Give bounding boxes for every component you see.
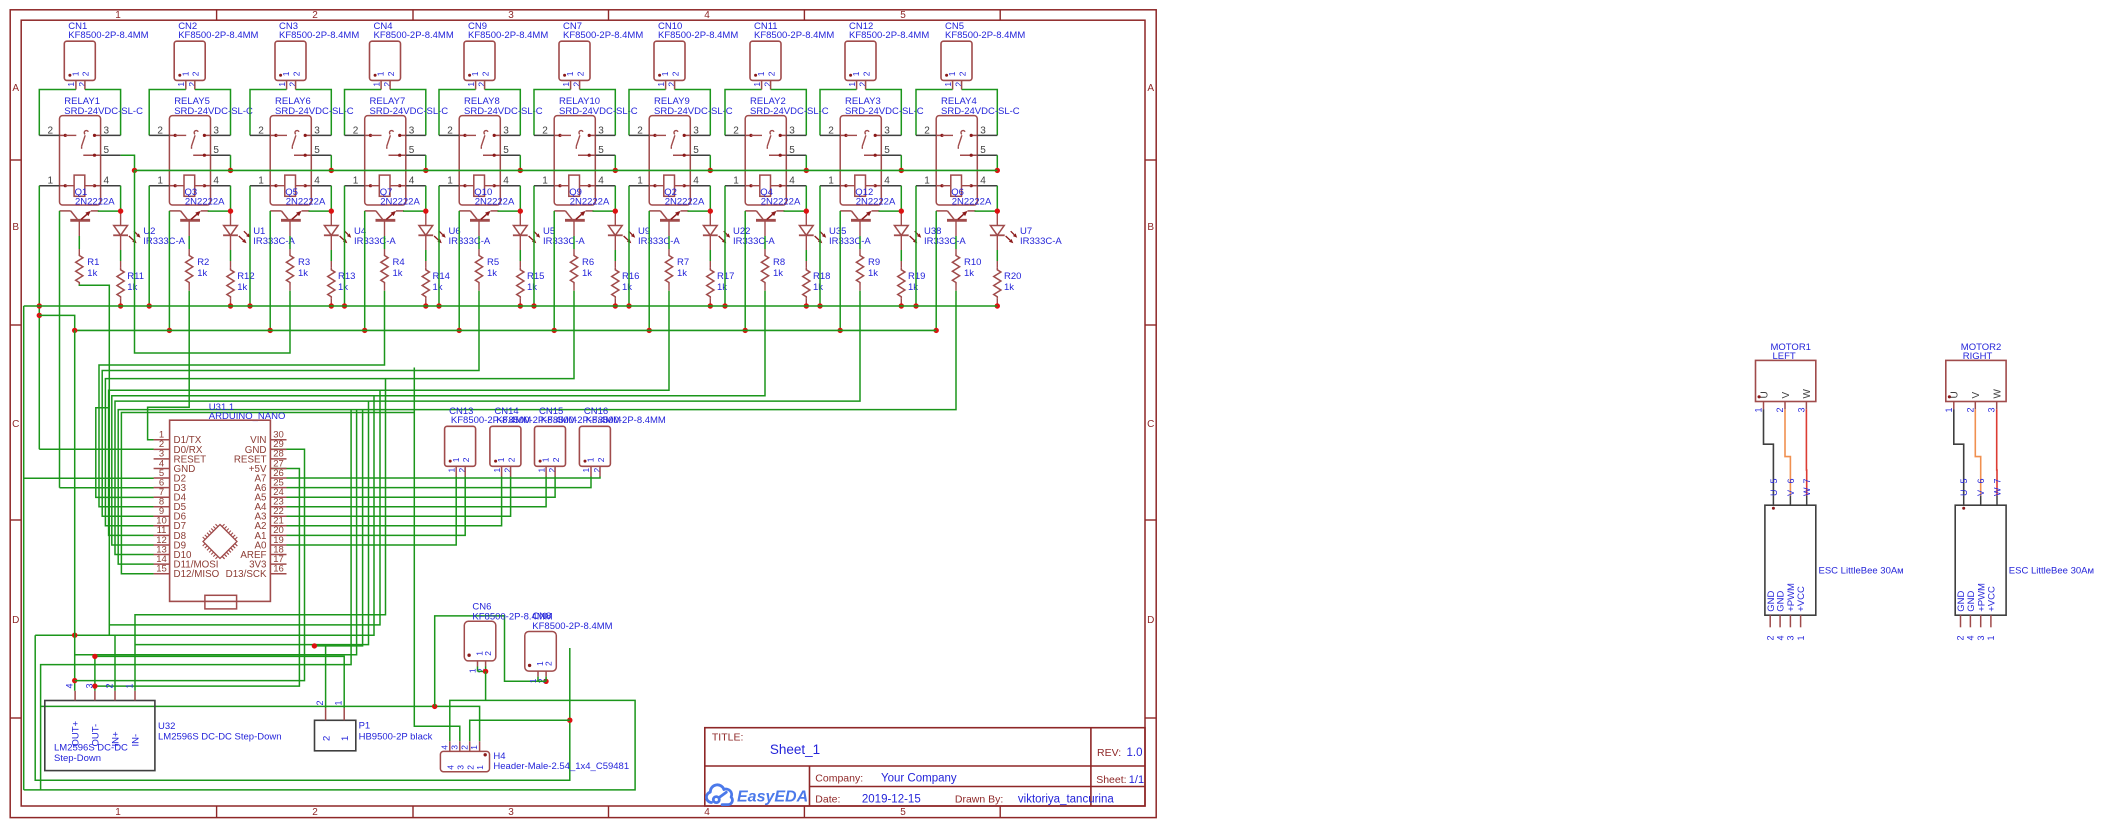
svg-text:2: 2	[353, 125, 359, 136]
resistor R6 1k	[570, 254, 577, 285]
svg-text:LM2596S DC-DC Step-Down: LM2596S DC-DC Step-Down	[158, 732, 282, 743]
wire Q6 base lead	[955, 220, 957, 236]
wire GND29 to OUT+ net	[75, 449, 305, 680]
svg-text:W: W	[1992, 487, 2002, 496]
svg-text:4: 4	[1966, 635, 1976, 640]
wire CN5 pin1 to RELAY4 pin2	[916, 90, 953, 136]
svg-text:2: 2	[924, 125, 930, 136]
svg-text:U32: U32	[158, 721, 175, 732]
svg-text:IR333C-A: IR333C-A	[543, 236, 585, 247]
svg-text:1k: 1k	[1004, 282, 1014, 293]
resistor R4 1k	[381, 254, 388, 285]
svg-text:5: 5	[980, 145, 986, 156]
svg-text:1: 1	[258, 175, 264, 186]
wire A pin 21 to CN drop	[287, 477, 502, 526]
wire R13 to bus1	[330, 299, 332, 306]
svg-text:4: 4	[789, 175, 795, 186]
USB tab	[205, 595, 237, 609]
svg-text:15: 15	[156, 564, 167, 575]
svg-text:2: 2	[461, 457, 471, 462]
svg-text:1k: 1k	[338, 282, 348, 293]
wire channel net to D pin 12	[112, 291, 765, 545]
svg-text:5: 5	[503, 145, 509, 156]
svg-text:2N2222A: 2N2222A	[761, 197, 801, 208]
wire Q9 base lead	[573, 220, 575, 236]
wire A pin 19 to CN drop	[287, 477, 457, 546]
svg-text:3: 3	[598, 125, 604, 136]
wire CN1 pin1 to RELAY1 pin2	[39, 90, 76, 136]
svg-text:4: 4	[65, 683, 75, 688]
svg-text:KF8500-2P-8.4MM: KF8500-2P-8.4MM	[945, 30, 1025, 41]
resistor R18 1k	[803, 268, 810, 299]
svg-text:1: 1	[581, 468, 591, 473]
svg-text:2N2222A: 2N2222A	[75, 197, 115, 208]
svg-text:3: 3	[213, 125, 219, 136]
svg-text:2N2222A: 2N2222A	[380, 197, 420, 208]
svg-text:2019-12-15: 2019-12-15	[862, 794, 921, 806]
svg-text:IR333C-A: IR333C-A	[449, 236, 491, 247]
wire Q2 base lead	[668, 220, 670, 236]
svg-text:1: 1	[851, 71, 861, 76]
svg-text:1: 1	[446, 468, 456, 473]
wire CN4 pin2 to RELAY7 pin3	[390, 90, 426, 136]
svg-text:1: 1	[371, 82, 381, 87]
svg-text:Header-Male-2.54_1x4_C59481: Header-Male-2.54_1x4_C59481	[493, 761, 629, 772]
svg-text:3: 3	[455, 765, 465, 770]
svg-text:Sheet_1: Sheet_1	[770, 742, 820, 757]
wire CN2 pin2 to RELAY5 pin3	[195, 90, 231, 136]
wire A pin 23 to CN drop	[287, 477, 547, 507]
svg-text:A: A	[12, 83, 19, 94]
wire Q1 collector rail	[59, 211, 61, 488]
title block	[705, 728, 1145, 806]
svg-text:TITLE:: TITLE:	[712, 732, 744, 744]
svg-text:KF8500-2P-8.4MM: KF8500-2P-8.4MM	[754, 30, 834, 41]
svg-text:D: D	[1147, 615, 1154, 626]
resistor R8 1k	[761, 254, 768, 285]
wire bus2 (transistor bus)	[75, 329, 937, 331]
svg-text:1: 1	[176, 82, 186, 87]
wire Q3 base lead	[188, 220, 190, 236]
svg-text:R9: R9	[868, 257, 880, 268]
svg-text:3: 3	[508, 10, 514, 21]
svg-text:R15: R15	[527, 271, 544, 282]
wire bus1 (LED/R return bus)	[24, 305, 998, 307]
svg-text:4: 4	[980, 175, 986, 186]
wire RELAY5 pin4 to Q3	[230, 186, 232, 211]
svg-text:3: 3	[84, 683, 94, 688]
connector P1 HB9500-2P	[315, 720, 356, 751]
LED U1 IR333C-A	[230, 211, 232, 225]
svg-text:1: 1	[66, 82, 76, 87]
svg-text:2: 2	[312, 807, 318, 818]
wire Q5 base lead	[289, 220, 291, 236]
svg-text:1: 1	[542, 175, 548, 186]
wire R11 to bus1	[120, 299, 122, 306]
svg-text:3: 3	[789, 125, 795, 136]
wire Q6 emitter to LED node	[975, 210, 998, 212]
svg-text:IR333C-A: IR333C-A	[1020, 236, 1062, 247]
resistor R13 1k	[328, 268, 335, 299]
svg-text:R1: R1	[87, 257, 99, 268]
svg-text:1: 1	[180, 71, 190, 76]
wire channel net to D pin 8	[99, 291, 385, 507]
svg-text:2: 2	[575, 71, 585, 76]
svg-text:1: 1	[466, 82, 476, 87]
svg-text:1: 1	[586, 457, 596, 462]
wire Q12 collector rail	[839, 211, 841, 331]
svg-text:D13/SCK: D13/SCK	[226, 569, 267, 580]
svg-text:1: 1	[48, 175, 54, 186]
svg-text:KF8500-2P-8.4MM: KF8500-2P-8.4MM	[849, 30, 929, 41]
svg-text:1: 1	[565, 71, 575, 76]
svg-text:IN-: IN-	[131, 734, 142, 747]
sheet frame	[10, 10, 1156, 818]
wire RELAY10 pin5 to COM bus	[614, 155, 616, 170]
svg-text:1: 1	[470, 71, 480, 76]
svg-text:EasyEDA: EasyEDA	[737, 789, 808, 806]
svg-text:IR333C-A: IR333C-A	[829, 236, 871, 247]
wire RELAY6 pin5 to COM bus	[330, 155, 332, 170]
wire A pin 20 to CN drop	[287, 477, 466, 536]
wire RELAY3 pin1 rail	[819, 186, 821, 306]
svg-text:5: 5	[598, 145, 604, 156]
wire to H4 pin 3	[414, 368, 460, 742]
wire Q4 collector rail	[744, 211, 746, 331]
svg-text:KF8500-2P-8.4MM: KF8500-2P-8.4MM	[374, 30, 454, 41]
svg-text:1: 1	[1754, 407, 1764, 412]
svg-text:Date:: Date:	[815, 794, 840, 806]
wire Q2 collector rail	[648, 211, 650, 331]
svg-text:2: 2	[1965, 407, 1975, 412]
svg-text:16: 16	[273, 564, 284, 575]
wire bundle drop to IN-	[135, 379, 386, 691]
svg-text:1: 1	[1796, 635, 1806, 640]
ESC LittleBee 30A (LEFT)	[1772, 496, 1774, 506]
wire R18 to bus1	[805, 299, 807, 306]
wire RELAY5 pin5 to COM bus	[230, 155, 232, 170]
LED U4 IR333C-A	[330, 211, 332, 225]
wire CN12 pin1 to RELAY3 pin2	[820, 90, 857, 136]
wire RELAY2 pin4 to Q4	[805, 186, 807, 211]
wire CN9 pin2 to RELAY8 pin3	[485, 90, 521, 136]
svg-text:2: 2	[291, 71, 301, 76]
svg-text:IR333C-A: IR333C-A	[733, 236, 775, 247]
svg-text:3: 3	[409, 125, 415, 136]
svg-text:4: 4	[409, 175, 415, 186]
wire D0 row	[39, 448, 154, 450]
svg-text:4: 4	[213, 175, 219, 186]
svg-text:3: 3	[104, 125, 110, 136]
svg-text:2N2222A: 2N2222A	[665, 197, 705, 208]
svg-text:2: 2	[637, 125, 643, 136]
svg-text:R6: R6	[582, 257, 594, 268]
svg-text:2: 2	[315, 700, 325, 705]
wire D2 row	[24, 477, 154, 479]
svg-text:1k: 1k	[237, 282, 247, 293]
svg-text:1: 1	[333, 700, 343, 705]
svg-text:1k: 1k	[298, 268, 308, 279]
svg-text:KF8500-2P-8.4MM: KF8500-2P-8.4MM	[586, 415, 666, 426]
wire COM bus (relay pin5 bus)	[135, 169, 998, 171]
svg-text:1: 1	[469, 745, 479, 750]
wire MOTOR2 V phase	[1975, 409, 1980, 495]
svg-text:2: 2	[191, 71, 201, 76]
wire R14 to bus1	[425, 299, 427, 306]
wire RELAY4 pin4 to Q6	[996, 186, 998, 211]
wire CN10 pin2 to RELAY9 pin3	[675, 90, 711, 136]
svg-text:1k: 1k	[87, 268, 97, 279]
wire channel net to D pin 10	[105, 291, 574, 526]
wire R19 to bus1	[900, 299, 902, 306]
regulator module U32 LM2596S	[45, 701, 155, 771]
wire CN10 pin1 to RELAY9 pin2	[629, 90, 666, 136]
svg-text:2: 2	[1775, 407, 1785, 412]
svg-text:2: 2	[157, 125, 163, 136]
wire R1 net to D pin 7	[96, 408, 154, 498]
wire bundle drop 6	[75, 410, 357, 655]
wire Q5 emitter to LED node	[309, 210, 332, 212]
svg-text:KF8500-2P-8.4MM: KF8500-2P-8.4MM	[178, 30, 258, 41]
wire CN5 pin2 to RELAY4 pin3	[962, 90, 998, 136]
wire Q6 collector rail	[935, 211, 937, 331]
svg-text:V: V	[1786, 490, 1796, 496]
wire Q2 emitter to LED node	[688, 210, 711, 212]
svg-text:2N2222A: 2N2222A	[475, 197, 515, 208]
svg-text:2: 2	[104, 683, 114, 688]
svg-text:Step-Down: Step-Down	[54, 753, 101, 764]
wire channel net to D pin 13	[115, 291, 860, 555]
wire RELAY6 pin1 rail	[249, 186, 251, 306]
svg-text:3: 3	[449, 745, 459, 750]
svg-text:1k: 1k	[393, 268, 403, 279]
svg-text:4: 4	[1775, 635, 1785, 640]
wire RELAY9 pin5 to COM bus	[709, 155, 711, 170]
wire CN9 pin1 to RELAY8 pin2	[439, 90, 476, 136]
svg-text:R20: R20	[1004, 271, 1021, 282]
wire Q9 emitter to LED node	[593, 210, 616, 212]
wire RELAY6 pin4 to Q5	[330, 186, 332, 211]
svg-text:R12: R12	[237, 271, 254, 282]
wire channel net to D pin 11	[109, 291, 669, 536]
EasyEDA logo	[706, 785, 732, 805]
wire CN3 pin2 to RELAY6 pin3	[296, 90, 332, 136]
wire CN7 pin1 to RELAY10 pin2	[534, 90, 571, 136]
svg-text:1: 1	[281, 71, 291, 76]
svg-text:2: 2	[1765, 635, 1775, 640]
resistor R14 1k	[422, 268, 429, 299]
svg-text:2: 2	[386, 71, 396, 76]
wire D3 row	[60, 487, 154, 489]
wire RELAY9 pin1 rail	[628, 186, 630, 306]
wire MOTOR1 V phase	[1785, 409, 1790, 495]
wire A pin 25 to CN drop	[287, 477, 592, 488]
svg-text:5: 5	[213, 145, 219, 156]
LED U2 IR333C-A	[120, 211, 122, 225]
svg-text:1k: 1k	[527, 282, 537, 293]
svg-text:1: 1	[752, 82, 762, 87]
wire Q12 emitter to LED node	[879, 210, 902, 212]
resistor R20 1k	[994, 268, 1001, 299]
svg-text:4: 4	[439, 745, 449, 750]
resistor R2 1k	[186, 254, 193, 285]
svg-text:1k: 1k	[127, 282, 137, 293]
svg-text:U: U	[1959, 490, 1969, 497]
wire A pin 26 to CN drop	[287, 477, 601, 479]
svg-text:2: 2	[447, 125, 453, 136]
svg-text:4: 4	[314, 175, 320, 186]
svg-text:1: 1	[536, 468, 546, 473]
svg-text:HB9500-2P black: HB9500-2P black	[359, 732, 433, 743]
svg-text:1k: 1k	[197, 268, 207, 279]
svg-text:1k: 1k	[433, 282, 443, 293]
svg-text:6: 6	[1786, 478, 1796, 483]
svg-text:5: 5	[104, 145, 110, 156]
svg-text:2N2222A: 2N2222A	[856, 197, 896, 208]
wire channel net to D pin 9	[102, 291, 479, 517]
svg-text:4: 4	[884, 175, 890, 186]
wire RELAY10 pin1 rail	[533, 186, 535, 306]
resistor R16 1k	[612, 268, 619, 299]
svg-text:U: U	[1950, 391, 1961, 398]
svg-text:W: W	[1993, 389, 2004, 399]
wire CN6 pins	[477, 667, 479, 672]
svg-text:5: 5	[789, 145, 795, 156]
svg-text:R13: R13	[338, 271, 355, 282]
svg-text:IR333C-A: IR333C-A	[354, 236, 396, 247]
svg-text:3: 3	[693, 125, 699, 136]
LED U22 IR333C-A	[709, 211, 711, 225]
svg-text:KF8500-2P-8.4MM: KF8500-2P-8.4MM	[279, 30, 359, 41]
resistor R1 1k	[76, 254, 83, 285]
svg-text:2: 2	[957, 71, 967, 76]
svg-text:1k: 1k	[813, 282, 823, 293]
wire CN4 pin1 to RELAY7 pin2	[345, 90, 382, 136]
wire Q7 collector rail	[364, 211, 366, 331]
svg-text:B: B	[12, 222, 19, 233]
wire channel 1 jog / channel 3 to D pin area	[135, 170, 291, 353]
svg-text:KF8500-2P-8.4MM: KF8500-2P-8.4MM	[468, 30, 548, 41]
wire Q7 base lead	[384, 220, 386, 236]
svg-text:3: 3	[314, 125, 320, 136]
svg-text:1: 1	[561, 82, 571, 87]
wire RELAY8 pin1 rail	[438, 186, 440, 306]
svg-text:REV:: REV:	[1097, 747, 1121, 759]
wire channel net to D pin 14	[118, 291, 956, 564]
svg-text:5: 5	[1959, 478, 1969, 483]
LED U38 IR333C-A	[900, 211, 902, 225]
svg-text:5: 5	[693, 145, 699, 156]
wire CN8 pins	[537, 677, 539, 682]
svg-text:1: 1	[541, 457, 551, 462]
wire CN3 pin1 to RELAY6 pin2	[250, 90, 287, 136]
svg-text:1: 1	[353, 175, 359, 186]
svg-text:2: 2	[861, 71, 871, 76]
wire Q1 emitter to LED node	[98, 210, 121, 212]
svg-text:ESC LittleBee 30Aм: ESC LittleBee 30Aм	[2009, 566, 2094, 577]
wire CN7 pin2 to RELAY10 pin3	[580, 90, 616, 136]
svg-text:2: 2	[596, 457, 606, 462]
svg-text:1: 1	[496, 457, 506, 462]
wire bundle drop 2	[109, 390, 380, 625]
wire MOTOR1 U phase	[1764, 409, 1774, 495]
svg-text:A: A	[1147, 83, 1154, 94]
wire R15 to bus1	[519, 299, 521, 306]
wire RELAY7 pin4 to Q7	[425, 186, 427, 211]
wire left rail bus1 to D2 and bottom	[23, 306, 25, 790]
svg-text:V: V	[1781, 392, 1792, 399]
wire MOTOR2 U phase	[1954, 409, 1964, 495]
wire Q4 base lead	[764, 220, 766, 236]
wire RELAY1 pin5 to COM bus	[121, 155, 135, 170]
svg-text:KF8500-2P-8.4MM: KF8500-2P-8.4MM	[532, 621, 612, 632]
svg-text:1: 1	[124, 683, 134, 688]
svg-text:1k: 1k	[622, 282, 632, 293]
svg-text:R10: R10	[964, 257, 981, 268]
svg-text:1: 1	[1944, 407, 1954, 412]
svg-text:1: 1	[492, 468, 502, 473]
svg-text:1: 1	[1986, 635, 1996, 640]
svg-text:2: 2	[465, 765, 475, 770]
wire RELAY10 pin4 to Q9	[614, 186, 616, 211]
svg-text:2: 2	[1956, 635, 1966, 640]
svg-text:3: 3	[884, 125, 890, 136]
svg-text:2: 2	[459, 745, 469, 750]
wire CN11 pin2 to RELAY2 pin3	[771, 90, 807, 136]
svg-text:D: D	[12, 615, 19, 626]
wire R16 to bus1	[614, 299, 616, 306]
svg-text:IR333C-A: IR333C-A	[253, 236, 295, 247]
svg-text:3: 3	[1796, 407, 1806, 412]
svg-text:2N2222A: 2N2222A	[952, 197, 992, 208]
svg-text:1: 1	[475, 765, 485, 770]
svg-text:7: 7	[1802, 478, 1812, 483]
svg-text:3: 3	[1786, 635, 1796, 640]
svg-text:3: 3	[503, 125, 509, 136]
svg-text:1: 1	[115, 807, 121, 818]
svg-text:W: W	[1802, 487, 1812, 496]
svg-text:1: 1	[756, 71, 766, 76]
svg-text:2: 2	[48, 125, 54, 136]
wire H4 pin2 line	[470, 720, 570, 741]
svg-text:R18: R18	[813, 271, 830, 282]
svg-text:5: 5	[900, 10, 906, 21]
resistor R3 1k	[286, 254, 293, 285]
svg-text:+VCC: +VCC	[1796, 586, 1807, 612]
svg-text:1: 1	[656, 82, 666, 87]
svg-text:ESC LittleBee 30Aм: ESC LittleBee 30Aм	[1819, 566, 1904, 577]
svg-text:2: 2	[551, 457, 561, 462]
wire net to D pin 15	[121, 413, 414, 574]
svg-text:1k: 1k	[773, 268, 783, 279]
svg-text:1: 1	[947, 71, 957, 76]
svg-text:2: 2	[766, 71, 776, 76]
svg-text:2N2222A: 2N2222A	[286, 197, 326, 208]
svg-text:2: 2	[506, 457, 516, 462]
wire RELAY2 pin5 to COM bus	[805, 155, 807, 170]
svg-text:R16: R16	[622, 271, 639, 282]
LED U5 IR333C-A	[519, 211, 521, 225]
svg-text:2: 2	[542, 125, 548, 136]
wire Q4 emitter to LED node	[784, 210, 807, 212]
svg-text:4: 4	[445, 765, 455, 770]
svg-text:5: 5	[1769, 478, 1779, 483]
wire Q3 emitter to LED node	[208, 210, 231, 212]
svg-text:R3: R3	[298, 257, 310, 268]
svg-text:2: 2	[312, 10, 318, 21]
svg-text:2N2222A: 2N2222A	[185, 197, 225, 208]
svg-text:1: 1	[157, 175, 163, 186]
